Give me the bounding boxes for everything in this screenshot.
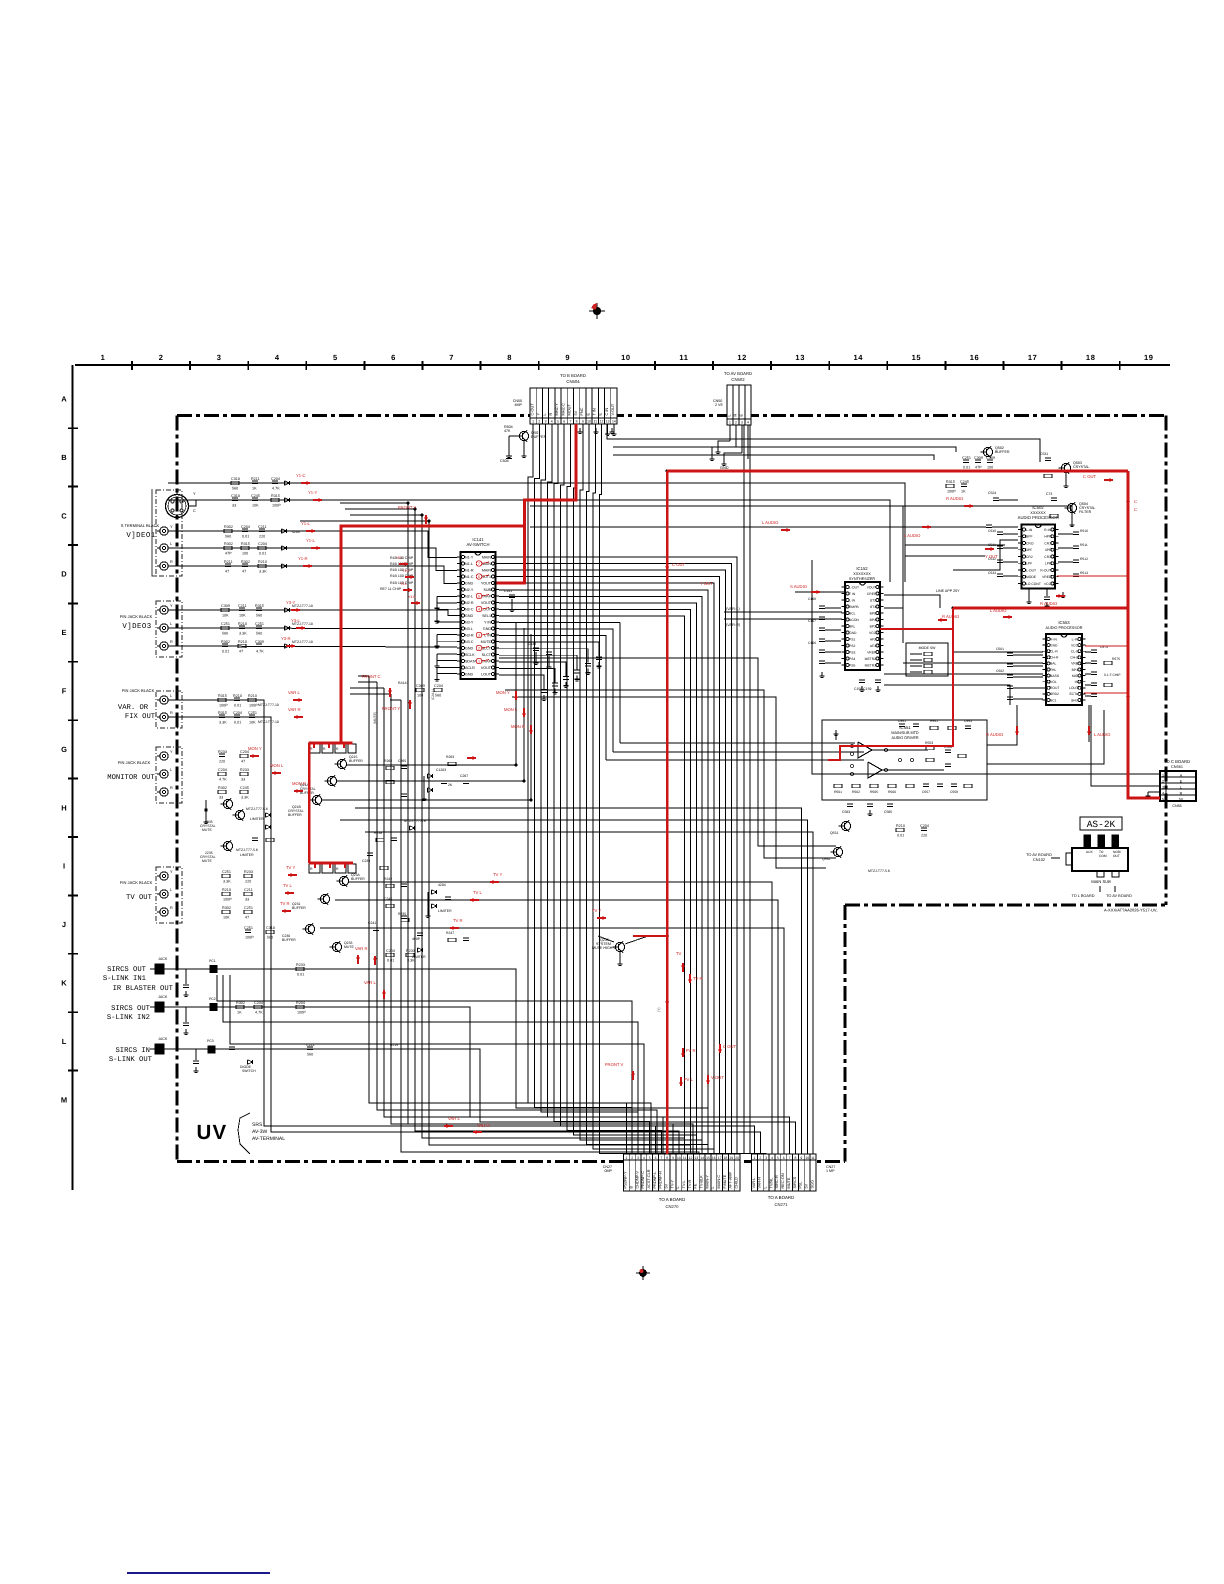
svg-text:C166: C166 — [808, 641, 816, 645]
svg-text:C204: C204 — [233, 711, 242, 715]
svg-text:L AUDIO: L AUDIO — [990, 608, 1007, 613]
wire video3 R to IC141 — [168, 646, 457, 647]
jack VIDEO1 R — [157, 560, 173, 570]
wire mute transistor feed — [592, 936, 648, 966]
wire var out L — [168, 700, 754, 1154]
wire sircs1 — [164, 969, 708, 1154]
svg-text:T IN: T IN — [593, 408, 597, 415]
svg-text:IC152: IC152 — [856, 566, 868, 571]
jack MONITOR R — [157, 786, 173, 796]
svg-text:MON R: MON R — [292, 781, 306, 786]
wire right bus verticals to CN561 region — [812, 560, 1160, 798]
svg-text:8: 8 — [795, 1156, 797, 1160]
svg-text:C251: C251 — [222, 870, 231, 874]
svg-text:16: 16 — [970, 353, 980, 362]
svg-text:3: 3 — [1162, 786, 1164, 790]
svg-text:FNC: FNC — [580, 407, 584, 415]
svg-text:SDATA: SDATA — [465, 659, 477, 663]
svg-text:TV Y: TV Y — [493, 872, 502, 877]
svg-text:F: F — [62, 687, 67, 696]
tv out buffer transistors — [282, 873, 365, 953]
svg-text:MON Y: MON Y — [248, 746, 262, 751]
red trace mute line — [633, 935, 667, 937]
svg-text:6: 6 — [478, 575, 480, 579]
jack TV Y — [157, 870, 173, 880]
svg-text:CHDNP-V: CHDNP-V — [635, 1171, 639, 1189]
wire IC152 var inputs — [724, 607, 842, 627]
svg-text:CN102: CN102 — [1033, 858, 1045, 862]
svg-text:47: 47 — [241, 759, 245, 763]
svg-text:1: 1 — [478, 659, 480, 663]
svg-text:0.01: 0.01 — [897, 833, 904, 837]
svg-text:Y3-R: Y3-R — [408, 595, 416, 599]
svg-text:19: 19 — [729, 1156, 733, 1160]
svg-text:V]DEO1: V]DEO1 — [126, 531, 155, 540]
svg-text:CN504: CN504 — [566, 379, 580, 384]
rotated bus annotations — [373, 689, 661, 1012]
svg-text:C251: C251 — [255, 622, 264, 626]
svg-text:BUFFER: BUFFER — [288, 813, 302, 817]
svg-text:AV-TERMINAL: AV-TERMINAL — [252, 1136, 285, 1142]
svg-text:1: 1 — [101, 353, 106, 362]
svg-text:Y: Y — [170, 604, 173, 608]
red trace IC553 out — [1084, 692, 1128, 694]
svg-text:AUX: AUX — [1086, 850, 1094, 854]
wire CN502 run down right — [744, 425, 750, 1154]
sircs discrete parts — [183, 959, 398, 1073]
svg-text:MUTE HIGH-C: MUTE HIGH-C — [592, 946, 617, 950]
jack VIDEO3 Y — [157, 604, 173, 614]
svg-text:0.01: 0.01 — [963, 465, 970, 469]
svg-text:11: 11 — [593, 419, 597, 423]
svg-text:C-OUT: C-OUT — [530, 403, 534, 416]
svg-text:N3-C: N3-C — [465, 640, 474, 644]
wire IC141 left lower pins stubs — [435, 596, 458, 681]
svg-text:0.01: 0.01 — [222, 649, 229, 653]
svg-text:MTZJ-T77-5.6: MTZJ-T77-5.6 — [246, 807, 268, 811]
svg-text:H: H — [61, 803, 66, 812]
svg-text:E: E — [739, 414, 743, 417]
svg-text:3.3K: 3.3K — [259, 569, 267, 573]
svg-text:GND: GND — [849, 631, 857, 635]
wire monitor R feed — [322, 634, 531, 800]
red trace GND loop top — [667, 466, 1128, 1154]
svg-text:SEL1: SEL1 — [482, 614, 491, 618]
svg-text:AF2: AF2 — [870, 637, 876, 641]
svg-text:E: E — [586, 413, 590, 416]
svg-text:AUDIO DRIVER: AUDIO DRIVER — [891, 736, 918, 740]
svg-text:LPF: LPF — [1045, 562, 1051, 566]
jack VAR OUT R — [157, 711, 173, 721]
svg-text:PRDNP-C: PRDNP-C — [641, 1171, 645, 1189]
svg-text:5: 5 — [1162, 798, 1164, 802]
svg-text:ACLR: ACLR — [465, 666, 475, 670]
svg-text:R210: R210 — [238, 640, 247, 644]
label AS-2K — [1080, 817, 1122, 830]
svg-text:MUTE: MUTE — [344, 945, 354, 949]
connector CN504 TO B BOARD — [513, 373, 617, 424]
wire IC141 right short stubs — [499, 623, 620, 761]
svg-text:5V: 5V — [665, 1183, 669, 1188]
svg-text:XXXXXXX: XXXXXXX — [853, 572, 871, 576]
wire sircs2 — [164, 1007, 790, 1154]
svg-text:R233: R233 — [296, 963, 305, 967]
svg-text:PS4: PS4 — [849, 657, 855, 661]
svg-text:4MP: 4MP — [515, 403, 523, 407]
monitor limiter diodes — [422, 768, 453, 801]
red trace IC502 VCC — [1057, 575, 1128, 577]
junction dots — [340, 470, 1130, 938]
svg-text:220: 220 — [921, 833, 927, 837]
svg-text:MTZJ-T77-5.6: MTZJ-T77-5.6 — [868, 869, 890, 873]
svg-text:ST1: ST1 — [870, 605, 876, 609]
svg-text:Q552: Q552 — [822, 857, 830, 861]
svg-text:R211: R211 — [224, 560, 233, 564]
svg-text:N2-R: N2-R — [465, 601, 474, 605]
svg-text:20: 20 — [735, 1156, 739, 1160]
svg-text:MID: MID — [1072, 674, 1079, 678]
svg-text:BUFFER: BUFFER — [282, 938, 296, 942]
wire video1 chroma row — [168, 483, 905, 582]
svg-text:C211: C211 — [258, 525, 267, 529]
svg-text:1K: 1K — [252, 486, 257, 490]
red arrow Y3-R — [286, 645, 295, 647]
svg-text:N2-L: N2-L — [465, 594, 473, 598]
svg-text:CL-R: CL-R — [1050, 650, 1058, 654]
svg-text:PS5: PS5 — [849, 663, 855, 667]
svg-text:PRDNP-L: PRDNP-L — [653, 1171, 657, 1189]
red pin highlights IC141 — [476, 561, 489, 664]
svg-text:18: 18 — [724, 1156, 728, 1160]
transistor Q504 crystal filter — [1046, 492, 1095, 527]
svg-text:47: 47 — [225, 569, 229, 573]
svg-text:2: 2 — [1162, 780, 1164, 784]
svg-text:7: 7 — [660, 1156, 662, 1160]
svg-text:RE7 11 CHIP: RE7 11 CHIP — [380, 587, 402, 591]
svg-text:560: 560 — [222, 631, 228, 635]
svg-text:ACST-CLR: ACST-CLR — [647, 1169, 651, 1188]
svg-text:7: 7 — [449, 353, 454, 362]
svg-text:100P: 100P — [245, 935, 254, 939]
svg-text:R562: R562 — [852, 790, 860, 794]
svg-text:TV-R: TV-R — [688, 1180, 692, 1189]
ground symbols under CN504 — [578, 428, 615, 434]
op-amp IC141 AV-SWITCH — [457, 537, 499, 679]
red arrow TV R left — [282, 910, 291, 912]
svg-text:Y IN: Y IN — [484, 620, 491, 624]
svg-text:R: R — [170, 560, 173, 564]
svg-text:ROUT: ROUT — [1050, 686, 1059, 690]
tv limiter cluster — [386, 883, 452, 962]
svg-text:FIX OUT: FIX OUT — [125, 713, 156, 721]
svg-text:VAR-L: VAR-L — [752, 1177, 756, 1189]
svg-text:12: 12 — [737, 353, 747, 362]
wire video1 Y to IC141 — [168, 531, 457, 558]
svg-text:47: 47 — [245, 915, 249, 919]
svg-text:47P: 47P — [225, 551, 232, 555]
svg-text:N1-R: N1-R — [465, 568, 474, 572]
svg-text:AS-2K: AS-2K — [1087, 819, 1116, 830]
svg-text:5V: 5V — [574, 410, 578, 415]
svg-text:N2-Y: N2-Y — [465, 588, 474, 592]
svg-text:Y1-L: Y1-L — [306, 538, 316, 543]
svg-text:TO AV BOARD: TO AV BOARD — [724, 371, 752, 376]
svg-text:12: 12 — [689, 1156, 693, 1160]
svg-text:F.MUTE: F.MUTE — [723, 1174, 727, 1188]
jack MONITOR Y — [157, 750, 173, 760]
svg-text:TV R: TV R — [453, 918, 463, 923]
svg-text:S AUDIO: S AUDIO — [790, 584, 808, 589]
svg-text:Y1-R: Y1-R — [402, 569, 410, 573]
resistor cluster video3 R — [221, 640, 264, 654]
svg-text:TV L: TV L — [283, 883, 293, 888]
svg-text:R513: R513 — [1080, 571, 1088, 575]
svg-text:C: C — [1134, 507, 1137, 512]
red arrow TV L left — [285, 892, 294, 894]
red arrow MON Y — [250, 755, 259, 757]
svg-text:0MP: 0MP — [605, 1169, 613, 1173]
svg-text:MAIN-C: MAIN-C — [717, 1175, 721, 1189]
svg-text:3: 3 — [478, 633, 480, 637]
svg-text:MTZJ-T77-5.6: MTZJ-T77-5.6 — [236, 848, 258, 852]
wire video3 L to IC141 — [168, 627, 457, 630]
svg-text:14: 14 — [700, 1156, 704, 1160]
red arrow TV Y right — [490, 881, 499, 883]
svg-text:L-IN: L-IN — [1026, 528, 1033, 532]
cluster right of IC502 — [1058, 529, 1088, 598]
svg-text:MAIN/SUB MTD: MAIN/SUB MTD — [891, 731, 919, 735]
svg-text:C211: C211 — [306, 1043, 315, 1047]
wire fan from CN504 — [528, 424, 616, 505]
svg-text:R510: R510 — [1080, 529, 1088, 533]
svg-text:19: 19 — [1144, 353, 1154, 362]
svg-text:4204: 4204 — [438, 883, 446, 887]
svg-text:C245: C245 — [251, 494, 260, 498]
svg-text:GND: GND — [465, 646, 473, 650]
red arrows MON feeds down — [496, 690, 533, 734]
svg-text:IR BLASTER OUT: IR BLASTER OUT — [113, 985, 174, 993]
svg-text:4: 4 — [643, 1156, 645, 1160]
svg-text:PIN JACK BLACK: PIN JACK BLACK — [118, 760, 151, 765]
red arrow FRONT Y top — [425, 515, 427, 524]
svg-text:8: 8 — [666, 1156, 668, 1160]
svg-text:C245: C245 — [240, 786, 249, 790]
wire nest upper rows — [217, 808, 813, 1154]
svg-text:2: 2 — [159, 353, 164, 362]
red arrow FRONT Y up — [409, 700, 411, 709]
svg-text:4: 4 — [551, 419, 553, 423]
svg-text:7: 7 — [478, 562, 480, 566]
svg-text:PIN JACK BLACK: PIN JACK BLACK — [122, 688, 155, 693]
svg-text:2K: 2K — [448, 783, 453, 787]
svg-text:47K: 47K — [504, 429, 511, 433]
wire bus center verticals — [528, 505, 766, 1154]
extra monitor cluster parts — [362, 755, 469, 870]
svg-text:Y1-Y: Y1-Y — [308, 490, 318, 495]
svg-text:PIN JACK BLACK: PIN JACK BLACK — [120, 614, 153, 619]
wire monitor L feed — [337, 628, 524, 781]
svg-text:4.7K: 4.7K — [256, 649, 264, 653]
svg-text:REC-ON: REC-ON — [781, 1173, 785, 1188]
svg-text:R302: R302 — [222, 906, 231, 910]
svg-text:VREF: VREF — [867, 650, 876, 654]
svg-text:10: 10 — [677, 1156, 681, 1160]
svg-text:7: 7 — [789, 1156, 791, 1160]
svg-text:L AUDIO: L AUDIO — [904, 533, 921, 538]
svg-text:LINE APP 25Y: LINE APP 25Y — [936, 589, 960, 593]
svg-text:LIMITER: LIMITER — [438, 909, 452, 913]
svg-text:5V: 5V — [805, 1183, 809, 1188]
svg-text:TO AV BOARD: TO AV BOARD — [1026, 853, 1052, 857]
svg-text:TV: TV — [676, 951, 682, 956]
red arrow Y3-Y — [291, 609, 300, 611]
svg-text:R215: R215 — [390, 1043, 398, 1047]
svg-text:MTZJ-T77-10: MTZJ-T77-10 — [258, 720, 279, 724]
svg-text:FRONT V: FRONT V — [605, 1062, 624, 1067]
svg-text:4: 4 — [771, 1156, 773, 1160]
svg-text:Y3-R: Y3-R — [281, 636, 291, 641]
svg-text:BASS: BASS — [1050, 674, 1060, 678]
svg-text:PS1: PS1 — [849, 637, 855, 641]
red arrow VAR R mid — [374, 956, 376, 965]
svg-text:L AUDIO: L AUDIO — [1094, 732, 1111, 737]
svg-text:CH-L: CH-L — [1070, 656, 1078, 660]
svg-text:C204: C204 — [258, 542, 267, 546]
svg-text:6: 6 — [563, 419, 565, 423]
red arrow MON L — [272, 772, 281, 774]
svg-text:100P: 100P — [223, 897, 232, 901]
svg-text:15: 15 — [912, 353, 922, 362]
svg-text:6: 6 — [783, 1156, 785, 1160]
svg-text:3: 3 — [765, 1156, 767, 1160]
svg-text:MTZJ-T77-5.6: MTZJ-T77-5.6 — [404, 819, 426, 823]
chip resistor labels video1 — [380, 556, 414, 591]
svg-text:TV-Y: TV-Y — [670, 1180, 674, 1189]
svg-text:Y: Y — [170, 525, 173, 529]
svg-text:N3-R: N3-R — [465, 633, 474, 637]
svg-text:R210: R210 — [258, 560, 267, 564]
svg-text:8: 8 — [576, 419, 578, 423]
svg-text:R575: R575 — [1112, 657, 1120, 661]
svg-text:JACK: JACK — [158, 1037, 168, 1041]
svg-text:C563: C563 — [842, 810, 850, 814]
svg-text:9: 9 — [582, 419, 584, 423]
red arrow S AUDIO — [811, 591, 820, 593]
svg-text:R302: R302 — [224, 542, 233, 546]
svg-text:5: 5 — [333, 353, 338, 362]
svg-text:C211: C211 — [238, 604, 247, 608]
svg-text:TV/RL: TV/RL — [769, 1177, 773, 1189]
svg-text:R-OUT: R-OUT — [1040, 568, 1051, 572]
resistor cluster var L — [218, 694, 279, 708]
svg-text:C504: C504 — [500, 459, 509, 463]
svg-text:TO L BOARD: TO L BOARD — [1071, 894, 1094, 898]
svg-text:0.01: 0.01 — [297, 972, 304, 976]
jack VIDEO1 Y — [157, 525, 173, 535]
svg-text:R AUDIO: R AUDIO — [986, 732, 1004, 737]
svg-text:C309: C309 — [255, 640, 264, 644]
svg-text:C OUT: C OUT — [672, 562, 685, 567]
transistor Q503 C OUT buffer — [1040, 452, 1089, 488]
svg-text:VAR R: VAR R — [355, 946, 368, 951]
red arrow TV Y left — [288, 874, 297, 876]
svg-text:MAIN-Y: MAIN-Y — [705, 1175, 709, 1189]
svg-text:CHILD: CHILD — [734, 1177, 738, 1189]
svg-text:CREF: CREF — [867, 592, 876, 596]
svg-text:17: 17 — [1028, 353, 1038, 362]
svg-text:Y1-C: Y1-C — [296, 473, 306, 478]
svg-text:C168: C168 — [808, 597, 816, 601]
svg-text:C318: C318 — [231, 477, 240, 481]
wire IC141 right fan to bottom connectors — [499, 557, 737, 1154]
svg-text:I: I — [63, 862, 65, 871]
svg-text:TV Y: TV Y — [286, 865, 295, 870]
jack group outline VAR — [156, 691, 182, 728]
wire loop to IC553 — [948, 652, 1043, 674]
svg-text:33: 33 — [241, 777, 245, 781]
svg-text:FRONT C: FRONT C — [362, 674, 381, 679]
svg-text:BP3: BP3 — [870, 624, 876, 628]
wire var out R — [168, 717, 760, 1154]
resistor cluster video1 chroma — [231, 477, 290, 491]
svg-text:Y1-R: Y1-R — [298, 556, 308, 561]
svg-text:33: 33 — [219, 795, 223, 799]
svg-text:TO AV BOARD: TO AV BOARD — [1106, 894, 1132, 898]
jack SIRCS OUT S-LINK IN2 — [150, 995, 168, 1012]
svg-text:R: R — [170, 711, 173, 715]
wire audio down from IC553 — [987, 705, 1089, 745]
resistor cluster video1 R — [224, 560, 287, 574]
svg-text:10: 10 — [805, 1156, 809, 1160]
svg-text:R566: R566 — [888, 790, 896, 794]
svg-text:C251: C251 — [244, 926, 253, 930]
svg-text:R302: R302 — [221, 640, 230, 644]
svg-text:C561: C561 — [996, 647, 1004, 651]
resistor cluster video3 L — [221, 622, 264, 636]
transistor Q501 buffer — [500, 425, 547, 463]
svg-text:Y3-L: Y3-L — [291, 618, 301, 623]
svg-text:IN: IN — [1075, 680, 1079, 684]
svg-text:AUDIO PROCESSOR: AUDIO PROCESSOR — [1046, 626, 1083, 630]
red trace audio R bus — [828, 608, 1128, 760]
svg-text:C239: C239 — [362, 859, 370, 863]
svg-text:F IN: F IN — [849, 592, 856, 596]
svg-text:SIRCS OUT: SIRCS OUT — [107, 966, 147, 974]
svg-text:Y3-L: Y3-L — [400, 582, 407, 586]
svg-text:CN561: CN561 — [1171, 765, 1183, 769]
top ruler line — [75, 364, 1170, 366]
monitor mute transistors — [200, 798, 274, 863]
svg-text:E: E — [599, 413, 603, 416]
registration mark top — [589, 303, 605, 319]
svg-text:VCC: VCC — [1071, 643, 1079, 647]
jack SIRCS OUT S-LINK IN1 — [150, 957, 168, 974]
svg-text:C245: C245 — [384, 897, 392, 901]
red arrow mon R jog — [467, 757, 476, 759]
svg-text:MON Y: MON Y — [496, 690, 510, 695]
svg-text:SIRC-R: SIRC-R — [775, 1175, 779, 1188]
svg-text:R565: R565 — [870, 790, 878, 794]
svg-text:LIMITER: LIMITER — [412, 955, 426, 959]
svg-text:LIMITER: LIMITER — [250, 817, 264, 821]
svg-text:SC1: SC1 — [1050, 698, 1057, 702]
svg-text:C565: C565 — [884, 810, 892, 814]
wire S audio link — [795, 591, 845, 593]
wire tv L feed — [335, 900, 778, 1154]
svg-text:C OUT: C OUT — [1083, 474, 1096, 479]
svg-text:10K: 10K — [222, 613, 229, 617]
jack MONITOR L — [157, 768, 173, 778]
